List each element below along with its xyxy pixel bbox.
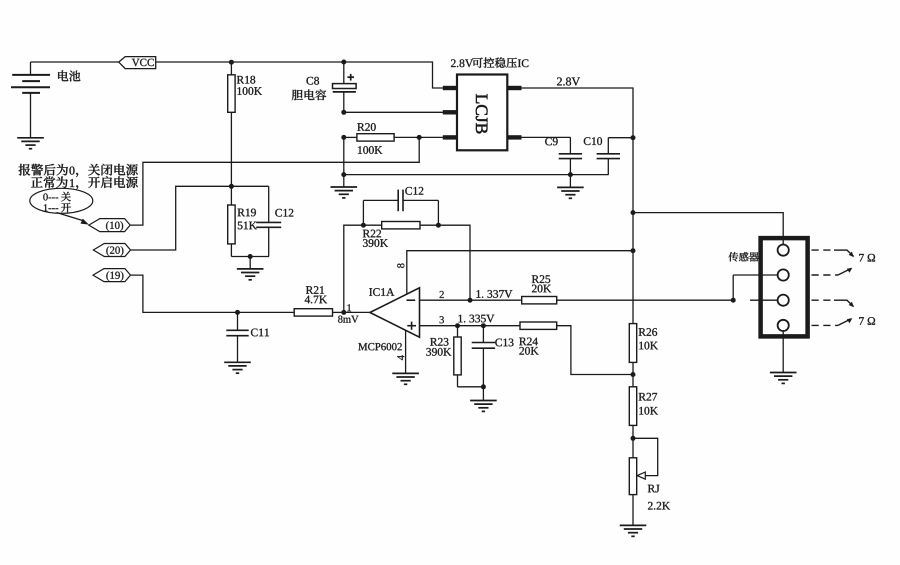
ellipse CJK 关 xyxy=(61,192,71,202)
note line1 报警后为0，关闭电源 xyxy=(19,164,68,176)
ground under RJ xyxy=(620,524,647,526)
pin label 2 xyxy=(440,291,444,298)
net flag VCC xyxy=(119,57,156,69)
wire R20 node to flag 10 xyxy=(130,137,419,225)
wire VCC to IC pin1 corner xyxy=(156,62,443,88)
label R18 100K xyxy=(237,76,255,84)
label C10 xyxy=(584,137,602,145)
pin 4 wire xyxy=(405,331,407,374)
wire R27 to RJ xyxy=(632,425,634,457)
node pin8 / 2.8V rail xyxy=(631,248,636,253)
node 2.8V to sensor xyxy=(631,210,636,215)
resistor R20 xyxy=(344,136,357,138)
label 1.335V xyxy=(459,315,495,323)
J1 pin 2 circle xyxy=(778,269,789,280)
node feedback left xyxy=(361,223,366,228)
node R23/C13 ground xyxy=(481,384,486,389)
node C8 / ground rail xyxy=(341,172,346,177)
label 8mV xyxy=(338,316,358,323)
node sensor / R25 xyxy=(731,298,736,303)
ground under C8 xyxy=(331,186,358,188)
wire R26 to R27 xyxy=(632,362,634,386)
pin label 1 xyxy=(347,304,351,311)
wire battery to VCC flag xyxy=(31,61,119,63)
label R27 10K xyxy=(639,393,657,401)
capacitor C11 xyxy=(237,312,239,330)
U1 pin pad left 1 xyxy=(443,86,457,90)
node op-amp output xyxy=(341,310,346,315)
label R19 51K xyxy=(238,209,256,217)
battery B1 电池 xyxy=(30,62,32,75)
node R20 / IC pin3 xyxy=(417,135,422,140)
resistor R18 xyxy=(230,62,232,75)
ellipse note 0--关 1--开 xyxy=(30,188,93,213)
wire to C10 xyxy=(608,137,633,139)
label C8 胆电容 xyxy=(306,77,319,85)
resistor R25 xyxy=(522,297,557,304)
resistor R23 xyxy=(457,326,459,337)
wire C8 to IC pin2 xyxy=(344,111,443,113)
J1 pin 3 circle xyxy=(778,295,789,306)
ground under op-amp pin4 xyxy=(392,372,419,374)
ground under C11 xyxy=(224,361,251,363)
RJ wiper arm xyxy=(633,438,658,475)
U1 pin pad right 2 xyxy=(507,135,521,139)
resistor R21 xyxy=(294,309,332,316)
wire C8 down to ground rail xyxy=(343,137,345,174)
resistor R26 xyxy=(629,324,636,363)
wire 2.8V to sensor pin1 xyxy=(633,213,783,245)
capacitor C13 xyxy=(482,326,484,343)
capacitor C12 (feedback) xyxy=(362,200,364,225)
label IC1A xyxy=(369,288,394,296)
pin label 8 xyxy=(397,263,404,267)
node pin3 / R23 xyxy=(455,323,460,328)
dashed lead pin2 xyxy=(812,274,839,276)
note line2 正常为1，开启电源 xyxy=(31,176,68,188)
sensor connector J1 body xyxy=(761,238,808,336)
label R24 20K xyxy=(519,338,538,346)
net flag (19) xyxy=(93,269,131,282)
wire op-amp output xyxy=(344,311,370,313)
wire IC to C9 xyxy=(522,136,571,138)
wire RJ to ground xyxy=(632,495,634,526)
U1 pin pad left 3 xyxy=(443,135,457,139)
wire J1 pin4 to ground xyxy=(782,331,784,373)
J1 pin 4 circle xyxy=(778,320,789,331)
label 传感器 xyxy=(729,252,759,262)
net flag (10) xyxy=(89,219,130,232)
ground under C9 xyxy=(557,186,584,188)
J1 pin 1 circle xyxy=(778,245,789,256)
node C8 / IC pin2 wire xyxy=(341,110,346,115)
U1 pin pad left 2 xyxy=(443,110,457,114)
label R20 100K xyxy=(357,123,375,131)
pin label 4 xyxy=(397,355,404,360)
ground under J1 xyxy=(770,372,797,374)
resistor R22 xyxy=(363,224,381,226)
ellipse CJK 开 xyxy=(61,203,71,212)
pin 8 wire xyxy=(407,251,633,295)
ground under R23/C13 xyxy=(482,387,484,401)
ground rail wire xyxy=(344,174,609,176)
wire pin2 drop xyxy=(732,275,734,300)
U1 pin pad right 1 xyxy=(507,86,521,90)
pin label 3 xyxy=(440,316,444,323)
ground under R19 xyxy=(249,257,251,269)
label R21 4.7K xyxy=(306,286,324,294)
wire R23/C13 bottom xyxy=(458,386,484,388)
node pin3 / C13 xyxy=(481,323,486,328)
label 2.8V可控稳压IC xyxy=(451,59,473,67)
resistor R27 xyxy=(629,387,636,426)
pin 2 wire xyxy=(420,299,522,301)
node top rail / C8 xyxy=(341,60,346,65)
node pin2 / feedback xyxy=(468,298,473,303)
label 7ohm bottom xyxy=(859,317,875,325)
label MCP6002 xyxy=(358,343,401,350)
wire J1 pin3 xyxy=(750,299,778,301)
wire C8-gnd stem xyxy=(343,175,345,187)
node feedback right xyxy=(436,223,441,228)
node top rail / R18 xyxy=(229,60,234,65)
node R18 / R19 xyxy=(229,184,234,189)
wire R19/C12 bottom xyxy=(231,256,269,258)
wire flag19 to R21 xyxy=(131,275,295,312)
label R26 10K xyxy=(639,328,657,336)
capacitor C10 xyxy=(607,138,609,154)
wire flag20 to R19 rail xyxy=(131,186,269,250)
pin 3 wire xyxy=(420,325,521,327)
label R23 390K xyxy=(430,338,448,346)
capacitor C12 (R19 parallel) xyxy=(268,186,270,222)
dashed lead pin4 xyxy=(812,324,839,326)
wire R24 to divider xyxy=(557,326,633,375)
arrow from ellipse to flag 10 xyxy=(57,213,83,221)
label R22 390K xyxy=(363,230,381,238)
op-amp U2 IC1A triangle xyxy=(370,288,420,337)
label 1.337V xyxy=(477,290,513,298)
label C12 (feedback) xyxy=(405,187,423,195)
capacitor C8 (polarized) xyxy=(343,62,345,84)
wire R20 to IC pin3 xyxy=(419,136,443,138)
label 2.8V xyxy=(557,77,580,85)
potentiometer RJ body xyxy=(629,458,636,495)
dashed lead pin3 xyxy=(812,299,835,301)
node C8 / R20 xyxy=(341,135,346,140)
label C11 xyxy=(251,329,269,337)
node R26/R27 xyxy=(631,372,636,377)
label 电池 xyxy=(58,70,80,81)
wire feedback to pin2 xyxy=(438,225,470,300)
wire R25 to sensor node xyxy=(557,299,734,301)
wire output to feedback xyxy=(344,225,364,312)
resistor R24 xyxy=(520,322,557,329)
wire 2.8V output xyxy=(522,88,634,324)
label C12 (R19) xyxy=(275,209,293,217)
node C11 tap xyxy=(235,310,240,315)
label C13 xyxy=(495,339,513,347)
node C9 / ground rail xyxy=(568,172,573,177)
net flag (20) xyxy=(93,244,130,257)
label RJ 2.2K xyxy=(648,485,660,493)
node 2.8V / C10 xyxy=(631,135,636,140)
resistor R19 xyxy=(230,186,232,205)
ground under battery xyxy=(17,137,44,139)
label C9 xyxy=(545,138,558,146)
regulator U1 LCJB body xyxy=(457,75,507,151)
node R27/RJ wiper xyxy=(631,436,636,441)
capacitor C9 xyxy=(569,137,571,153)
label R25 20K xyxy=(532,275,550,283)
wire J1 pin2 xyxy=(733,274,777,276)
label 7ohm top xyxy=(859,254,875,262)
dashed lead pin1 xyxy=(812,249,835,251)
node ground tap R19 xyxy=(248,254,253,259)
